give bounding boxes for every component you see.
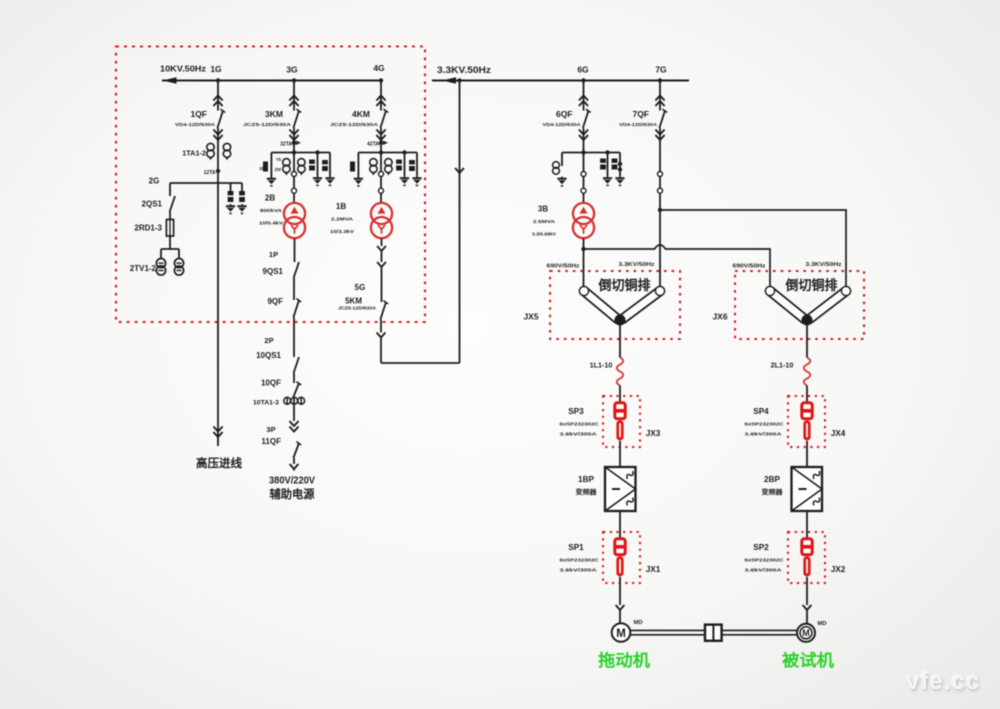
junction dot bus to 1B feeder link <box>457 78 461 82</box>
svg-text:11QF: 11QF <box>261 437 281 446</box>
svg-text:被试机: 被试机 <box>782 650 835 670</box>
sensor double-circle pair 2 of 3G bank <box>298 159 305 176</box>
svg-text:2RD1-3: 2RD1-3 <box>134 224 162 233</box>
wire between 9QS1 and 9QF <box>293 278 295 300</box>
ground symbol 4G bank left <box>354 177 363 186</box>
svg-text:3P: 3P <box>266 425 275 434</box>
chevron below enclosure on 1B output <box>377 333 386 338</box>
sensor SP2 lower element (red) <box>803 556 810 576</box>
junction dot 4G bank right drop 1 <box>402 150 406 154</box>
breaker 7QF symbol <box>659 109 667 128</box>
wire 9QF to 10QS1 <box>293 318 295 358</box>
wire 1B secondary to 5KM <box>381 267 383 302</box>
breaker 4KM symbol <box>380 109 388 128</box>
svg-text:10/3.3kV: 10/3.3kV <box>330 229 355 235</box>
wire below 11QF <box>293 458 295 464</box>
breaker 9QF symbol <box>293 299 301 318</box>
svg-text:42TA: 42TA <box>367 142 379 148</box>
svg-text:辅助电源: 辅助电源 <box>270 487 315 501</box>
disconnector 9QS1 symbol <box>294 262 299 278</box>
svg-text:1P: 1P <box>269 250 278 259</box>
node 4G junction dot <box>379 78 383 82</box>
feeder 7G upper drawout contact chevrons <box>655 96 664 107</box>
ground symbol below left arrester <box>226 204 235 213</box>
wire 2B secondary down-lead <box>294 239 296 262</box>
bus 10KV left arrowhead <box>163 77 177 83</box>
feeder 3G lower drawout contact chevrons <box>289 130 298 141</box>
svg-text:高压进线: 高压进线 <box>196 456 242 470</box>
wire 1G drop upper segment <box>217 81 219 111</box>
wire 1B output to corner <box>380 338 382 364</box>
sensor SP4 upper element (red) <box>802 403 812 419</box>
wire 12TA arrester stub right <box>241 183 243 191</box>
svg-text:M: M <box>802 628 810 638</box>
wire 2G drop upper <box>169 183 171 196</box>
svg-text:3.6kV/300A: 3.6kV/300A <box>560 432 598 437</box>
svg-text:倒切铜排: 倒切铜排 <box>598 277 651 293</box>
sensor SP2 upper element (red) <box>802 539 812 555</box>
svg-text:JX6: JX6 <box>712 312 727 322</box>
svg-text:690V/50Hz: 690V/50Hz <box>547 264 580 270</box>
watermark vfe.cc <box>906 668 980 696</box>
svg-text:1G: 1G <box>210 64 222 74</box>
disconnector 2QS1 symbol <box>170 196 175 212</box>
svg-text:1B: 1B <box>336 202 346 211</box>
surge arrester element left of 1G feeder <box>228 191 234 202</box>
arrester blob element right drop 1 of 6G bank <box>600 159 606 170</box>
svg-text:690V/50Hz: 690V/50Hz <box>733 264 766 270</box>
svg-text:6G: 6G <box>577 65 589 75</box>
wire 3G bank left drop <box>270 153 272 178</box>
arrester blob element right drop 1 of 4G bank <box>396 160 402 171</box>
svg-text:M: M <box>616 628 626 640</box>
ground symbol 6G bank right drop 1 <box>603 176 612 185</box>
arrester blob element right drop 2 of 4G bank <box>409 160 415 171</box>
svg-text:7QF: 7QF <box>632 109 649 119</box>
wire SP1 to drive motor <box>619 577 621 605</box>
copper link bar right of JX6 <box>810 291 847 319</box>
wire 6G drop upper segment <box>583 81 585 111</box>
svg-text:3KM: 3KM <box>265 109 283 119</box>
svg-text:JX5: JX5 <box>523 312 538 322</box>
wire 12TA arrester stub left <box>230 183 232 191</box>
svg-text:SP2: SP2 <box>753 543 769 552</box>
vertex dot JX6 output <box>802 315 813 326</box>
wire 4G bank right drop 1 <box>404 153 406 177</box>
wire 6G drop to transformer 3B <box>583 128 585 203</box>
node circle on 4G drop upper <box>379 172 384 177</box>
sensor double-circle pair 1 of 3G bank <box>283 159 290 176</box>
svg-text:7G: 7G <box>655 65 667 75</box>
wire 1B secondary upper <box>381 239 383 246</box>
svg-text:3.3KV/50Hz: 3.3KV/50Hz <box>806 262 842 268</box>
node circle on 7G drop lower <box>658 188 663 193</box>
svg-text:3.6kV/300A: 3.6kV/300A <box>745 568 783 573</box>
copper link bar left of JX6 <box>770 291 805 319</box>
feeder 1G lower drawout contact chevrons <box>213 130 222 141</box>
capacitor dot 1 on 6G bank right drop 2 <box>618 162 622 166</box>
feeder 4G lower drawout contact chevrons <box>376 130 385 141</box>
wire 3G surge-arrester bank bar <box>271 152 330 154</box>
sensor double-circle pair 2 of 4G bank <box>385 159 392 176</box>
changeover terminal box JX5 dashed border <box>550 271 680 339</box>
svg-text:6xSP232302C: 6xSP232302C <box>560 422 600 427</box>
svg-text:MD: MD <box>633 620 642 626</box>
changeover terminal box JX6 dashed border <box>735 271 864 339</box>
breaker 3KM symbol <box>293 109 301 128</box>
breaker 10QF symbol <box>293 382 301 397</box>
svg-text:10TA1-3: 10TA1-3 <box>253 400 279 407</box>
node 42TA dot with arrow <box>379 141 388 146</box>
svg-text:3.3/0.69kV: 3.3/0.69kV <box>532 232 557 238</box>
svg-text:800kVA: 800kVA <box>260 208 283 214</box>
wire 2TV left stub <box>160 249 162 259</box>
node 7G junction dot <box>658 78 662 82</box>
ground symbol 6G bank left <box>557 177 566 186</box>
node circle on 6G drop lower <box>581 188 586 193</box>
svg-text:2.2MVA: 2.2MVA <box>331 217 354 223</box>
vertex dot JX5 output <box>615 315 626 326</box>
copper link bar left of JX5 <box>584 291 618 319</box>
svg-text:9QF: 9QF <box>267 297 283 306</box>
svg-text:5KM: 5KM <box>345 297 362 306</box>
node 12TA dot <box>216 169 220 173</box>
breaker 1QF symbol <box>217 109 225 128</box>
wire 6G surge-arrester bank bar <box>562 152 620 154</box>
wire 1G incoming feeder down-lead <box>217 183 219 446</box>
breaker 6QF symbol <box>583 109 591 128</box>
wire SP3 to converter 1BP <box>619 441 621 467</box>
svg-text:ZW: ZW <box>274 167 281 172</box>
sensor box SP2 dashed border <box>788 532 825 583</box>
wire 10QF to 10TA <box>293 397 295 421</box>
svg-text:2TV1-2: 2TV1-2 <box>130 264 157 273</box>
wire below 5KM crossing enclosure <box>380 320 382 333</box>
svg-text:3.3KV.50Hz: 3.3KV.50Hz <box>437 65 491 75</box>
wire 4G drop to transformer 1B <box>380 128 382 203</box>
svg-text:1L1-10: 1L1-10 <box>590 361 613 370</box>
ground symbol 3G bank left <box>267 177 276 186</box>
svg-text:3.6kV/300A: 3.6kV/300A <box>560 568 598 573</box>
wire 2BP to SP2 <box>806 511 808 539</box>
wire reactor to SP3 <box>619 386 621 404</box>
svg-text:MD: MD <box>817 621 826 627</box>
arrow above test motor <box>803 605 812 610</box>
sensor SP1 upper element (red) <box>615 539 625 555</box>
transformer 1B (delta-wye) <box>371 203 392 238</box>
copper link bar right of JX5 <box>623 291 661 319</box>
svg-text:5G: 5G <box>355 283 366 292</box>
svg-text:JCZ5-12D/630A: JCZ5-12D/630A <box>330 122 379 128</box>
svg-text:SP3: SP3 <box>568 407 584 416</box>
sensor SP3 upper element (red) <box>615 403 625 419</box>
current transformer 1TA1-2 right pair <box>223 143 230 160</box>
wire 4G drop upper segment <box>380 81 382 111</box>
svg-text:VD4-12D/630A: VD4-12D/630A <box>619 122 658 128</box>
wire 6G bank right drop 1 <box>607 153 609 177</box>
arrester element on 6G bank left drop <box>553 162 560 175</box>
wire 2TV splitter bar <box>161 248 179 250</box>
svg-text:1BP: 1BP <box>578 475 594 484</box>
surge arrester element right of 1G feeder <box>239 191 245 202</box>
voltage transformer 2TV1-2 left unit <box>156 259 165 276</box>
node circle on 4G drop lower <box>379 188 384 193</box>
chevron on 1B output riser <box>455 168 464 173</box>
svg-text:6xSP232302C: 6xSP232302C <box>745 422 785 427</box>
transformer 2B (delta-wye) <box>284 203 305 238</box>
svg-text:32TA: 32TA <box>280 142 292 148</box>
feeder 4G upper drawout contact chevrons <box>376 96 385 107</box>
wire 1BP to SP1 <box>619 511 621 539</box>
wire 7G drop upper segment <box>659 81 661 111</box>
pivot circle JX6 right <box>841 286 850 295</box>
disconnector 10QS1 symbol <box>294 357 299 373</box>
svg-text:拖动机: 拖动机 <box>598 650 651 670</box>
sensor box SP1 dashed border <box>603 532 640 583</box>
node 1G junction dot <box>216 78 220 82</box>
svg-text:4KM: 4KM <box>352 109 370 119</box>
svg-text:JX1: JX1 <box>646 565 661 574</box>
wire 10QS1 to 10QF <box>293 373 295 383</box>
svg-text:2L1-10: 2L1-10 <box>771 361 794 370</box>
wire 1G drop middle segment <box>217 128 219 183</box>
reactor 1L1-10 red coil <box>617 358 624 386</box>
chevron 1 below 1B <box>377 246 386 251</box>
wire horizontal tie bar at 12TA junction <box>170 182 242 184</box>
ground symbol below right arrester <box>237 204 246 213</box>
pivot circle JX6 left <box>765 286 774 295</box>
arrester element on 4G bank left drop <box>350 162 355 172</box>
reactor 2L1-10 red coil <box>804 358 811 386</box>
svg-text:4G: 4G <box>373 63 385 73</box>
sensor double-circle pair 1 of 4G bank <box>370 159 377 176</box>
wire SP2 to test motor <box>806 577 808 605</box>
svg-text:12TA: 12TA <box>204 170 216 176</box>
capacitor dot 2 on 6G bank right drop 2 <box>618 167 622 171</box>
sensor SP1 lower element (red) <box>616 556 623 576</box>
shaft coupling between motors <box>630 625 797 641</box>
svg-text:JX2: JX2 <box>831 565 846 574</box>
feeder 3G upper drawout contact chevrons <box>289 96 298 107</box>
motor M test machine (被试机) <box>797 624 815 642</box>
sensor box SP4 dashed border <box>788 396 825 447</box>
svg-text:JCZ5-12D/630A: JCZ5-12D/630A <box>338 306 377 311</box>
svg-text:3G: 3G <box>286 65 298 75</box>
svg-text:2B: 2B <box>265 194 275 203</box>
wire auxiliary output tip <box>293 469 295 471</box>
svg-text:VD4-12D/630A: VD4-12D/630A <box>543 122 582 128</box>
transformer 3B (delta-wye) <box>573 203 594 238</box>
junction dot 6G bank <box>581 150 585 154</box>
wire 6G bank right drop 2 <box>619 153 621 177</box>
junction dot 3G bank right drop 1 <box>315 150 319 154</box>
arrester blob element right drop 2 of 3G bank <box>322 160 328 171</box>
svg-text:JX3: JX3 <box>646 429 661 438</box>
bus 10KV.50Hz horizontal busbar <box>162 79 381 81</box>
wire 3G bank right drop 1 <box>317 153 319 177</box>
sensor box SP3 dashed border <box>603 396 640 447</box>
svg-text:9QS1: 9QS1 <box>263 267 284 276</box>
svg-text:变频器: 变频器 <box>576 487 598 496</box>
junction dot 4G bank <box>379 150 383 154</box>
fuse 2RD1-3 symbol <box>166 220 173 237</box>
svg-text:380V/220V: 380V/220V <box>269 476 315 487</box>
sensor SP3 lower element (red) <box>616 420 623 440</box>
svg-text:Y5: Y5 <box>276 157 282 162</box>
svg-text:10/0.4kV: 10/0.4kV <box>259 221 284 227</box>
converter 1BP box <box>605 467 636 511</box>
contactor 5KM symbol <box>380 301 388 320</box>
svg-text:1QF: 1QF <box>190 109 207 119</box>
incoming feeder drawout arrow <box>213 427 222 438</box>
svg-text:2P: 2P <box>264 336 273 345</box>
junction dot 7G branch to JX6 <box>658 208 662 212</box>
wire 1B secondary segment <box>381 251 383 262</box>
ground symbol 3G bank right drop 1 <box>313 176 322 185</box>
wire 6G bank left drop <box>561 153 563 167</box>
svg-text:3.3KV/50Hz: 3.3KV/50Hz <box>619 262 655 268</box>
wire 3B secondary to JX5 left pivot <box>583 239 585 291</box>
svg-text:倒切铜排: 倒切铜排 <box>785 277 838 293</box>
current transformer 10TA1-3 three circles <box>284 397 305 405</box>
wire 2TV right stub <box>178 249 180 259</box>
drawout chevrons above 11QF <box>289 421 298 432</box>
svg-text:3B: 3B <box>538 205 548 214</box>
svg-text:1TA1-2: 1TA1-2 <box>182 149 206 158</box>
arrester blob element right drop 1 of 3G bank <box>309 160 315 171</box>
svg-text:2QS1: 2QS1 <box>142 200 163 209</box>
arrester blob element right drop 2 of 6G bank <box>612 159 618 170</box>
bus 3.3KV.50Hz horizontal busbar <box>432 79 689 81</box>
svg-text:2.5MVA: 2.5MVA <box>533 219 556 225</box>
wire SP4 to converter 2BP <box>806 441 808 467</box>
node circle on 6G drop upper <box>581 172 586 177</box>
wire 4G bank left drop <box>357 153 359 178</box>
sensor SP4 lower element (red) <box>803 420 810 440</box>
svg-text:6QF: 6QF <box>556 109 573 119</box>
node circle on 3G drop lower <box>292 188 297 193</box>
node 6G junction dot <box>581 78 585 82</box>
junction dot 3G bank <box>292 150 296 154</box>
svg-text:3.6kV/300A: 3.6kV/300A <box>745 432 783 437</box>
arrow above drive motor <box>616 605 625 610</box>
ground symbol 6G bank right drop 2 <box>615 176 624 185</box>
svg-text:SP4: SP4 <box>753 407 769 416</box>
voltage transformer 2TV1-2 right unit <box>174 259 183 276</box>
wire 4G bank right drop 2 <box>416 153 418 177</box>
wire 690V feed to JX6 with crossover hop <box>584 245 771 286</box>
svg-text:JX4: JX4 <box>831 429 846 438</box>
wire into test motor <box>806 610 808 624</box>
ground symbol 4G bank right drop 2 <box>412 176 421 185</box>
pivot circle JX5 right <box>655 286 664 295</box>
ground symbol 3G bank right drop 2 <box>325 176 334 185</box>
feeder 7G lower drawout contact chevrons <box>655 130 664 141</box>
svg-text:VD4-12D/630A: VD4-12D/630A <box>175 122 216 128</box>
wire 2G above fuse <box>169 212 171 220</box>
feeder 6G lower drawout contact chevrons <box>579 130 588 141</box>
node circle on 7G drop upper <box>658 172 663 177</box>
arrester element on 3G bank left drop <box>263 162 268 172</box>
wire 3.3KV feed to JX6 right pivot <box>660 210 846 286</box>
svg-text:10KV.50Hz: 10KV.50Hz <box>160 64 207 74</box>
feeder 6G upper drawout contact chevrons <box>579 96 588 107</box>
wire JX6 output to reactor 2L1-10 <box>806 322 808 358</box>
node circle on 3G drop upper <box>292 172 297 177</box>
ground symbol 4G bank right drop 1 <box>400 176 409 185</box>
current transformer 1TA1-2 left pair <box>207 143 214 160</box>
junction dot 6G bank right drop 1 <box>605 150 609 154</box>
node 3G junction dot <box>292 78 296 82</box>
converter 2BP box <box>792 467 823 511</box>
wire 7G drop to JX5 right pivot <box>659 128 661 291</box>
svg-text:SP1: SP1 <box>568 543 584 552</box>
svg-text:6xSP232302C: 6xSP232302C <box>560 558 600 563</box>
wire 4G surge-arrester bank bar <box>358 152 417 154</box>
wire 3G bank right drop 2 <box>329 153 331 177</box>
breaker 11QF symbol <box>293 442 301 458</box>
motor M drive machine (拖动机) <box>612 623 631 642</box>
svg-text:10QS1: 10QS1 <box>256 351 281 360</box>
svg-text:2BP: 2BP <box>764 475 780 484</box>
wire 3G drop upper segment <box>293 81 295 111</box>
svg-text:JCZ5-12D/630A: JCZ5-12D/630A <box>243 122 292 128</box>
wire 3G drop to transformer 2B <box>293 128 295 203</box>
pivot circle JX5 left <box>579 286 588 295</box>
svg-text:10QF: 10QF <box>261 379 281 388</box>
wire 2G below fuse <box>169 236 171 249</box>
feeder 1G upper drawout contact chevrons <box>213 96 222 107</box>
svg-text:6xSP232302C: 6xSP232302C <box>745 558 785 563</box>
wire into drive motor <box>619 610 621 623</box>
svg-text:2G: 2G <box>149 177 160 186</box>
wire 1B output horizontal run <box>381 362 460 364</box>
node 32TA dot with arrow <box>292 141 301 146</box>
svg-text:变频器: 变频器 <box>762 487 784 496</box>
auxiliary supply output arrow <box>290 464 299 469</box>
10kV switchgear dashed enclosure box <box>116 47 425 323</box>
chevron 2 below 1B <box>377 262 386 267</box>
junction dot 3B secondary split <box>581 247 585 251</box>
wire reactor to SP4 <box>806 386 808 404</box>
wire JX5 output to reactor 1L1-10 <box>619 322 621 358</box>
wire 1B output riser to 3.3KV bus <box>459 81 461 364</box>
bus 3.3KV left arrowhead <box>442 77 456 83</box>
